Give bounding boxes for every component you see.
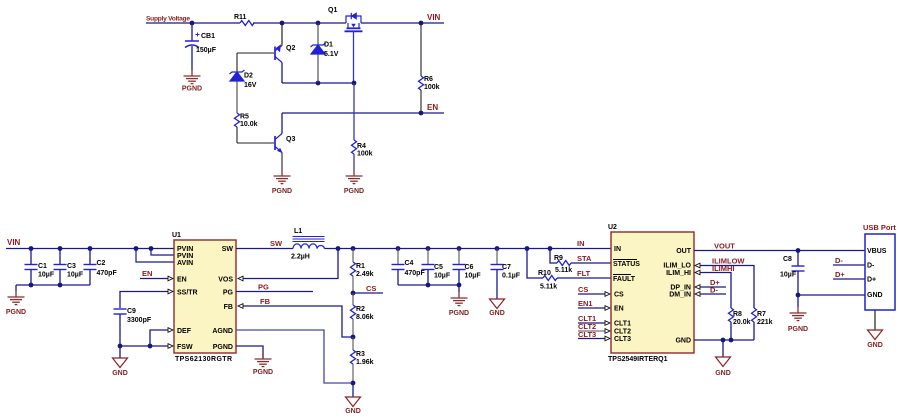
junction caps rail at C5: [426, 283, 431, 288]
svg-text:D2: D2: [244, 73, 253, 80]
svg-text:PGND: PGND: [213, 344, 233, 351]
svg-text:ILIMHI: ILIMHI: [712, 264, 735, 273]
node CLT3 label: [578, 330, 596, 339]
wire C8 bottom to USB GND: [798, 294, 865, 296]
wire FB to divider: [238, 304, 353, 337]
svg-text:GND: GND: [867, 292, 883, 299]
svg-text:FLT: FLT: [577, 269, 591, 278]
svg-text:EN: EN: [177, 277, 187, 284]
svg-text:DP_IN: DP_IN: [670, 285, 691, 292]
capacitor CB1 150uF: [185, 23, 217, 70]
svg-text:FB: FB: [224, 304, 233, 311]
svg-text:10µF: 10µF: [67, 272, 84, 279]
capacitor C8 10uF: [780, 251, 805, 296]
svg-text:C7: C7: [502, 264, 511, 271]
junction caps rail at C3: [58, 283, 63, 288]
pin U2 IN: [614, 246, 621, 253]
svg-text:U1: U1: [172, 232, 181, 239]
wire top rail R11 to Q1: [253, 22, 346, 24]
junction CS node: [351, 291, 356, 296]
node Supply Voltage label: [146, 16, 190, 23]
svg-text:GND: GND: [867, 342, 883, 349]
svg-text:CS: CS: [578, 285, 588, 294]
wire U1 PGND to ground: [236, 346, 263, 358]
pin U2 DM_IN: [669, 292, 691, 299]
wire top rail Q1 to VIN: [361, 22, 444, 24]
svg-text:8.06k: 8.06k: [356, 314, 374, 321]
svg-text:CLT1: CLT1: [614, 321, 631, 328]
connector USB Port: [863, 223, 896, 310]
svg-text:Q2: Q2: [286, 45, 295, 52]
transistor Q3 NPN: [275, 134, 295, 154]
pin U2 STATUS: [613, 260, 640, 269]
svg-text:R5: R5: [240, 114, 249, 121]
pin U1 PVIN 1: [177, 246, 193, 253]
node D+ label USB: [835, 270, 845, 279]
wire C9 node to GND: [119, 346, 121, 358]
wire OUT to VBUS: [694, 250, 865, 252]
wire VOS branch: [238, 249, 338, 281]
capacitor C2 470pF: [84, 249, 118, 286]
wire SS/TR to C9: [120, 289, 173, 308]
junction gate node: [352, 81, 357, 86]
node EN1 label: [578, 299, 593, 308]
wire CS stub: [353, 292, 383, 294]
svg-text:PG: PG: [258, 283, 269, 292]
wire ILIM_HI to R8: [695, 270, 731, 308]
junction SW rail R1: [351, 246, 356, 251]
junction SW rail VOS branch: [336, 246, 341, 251]
svg-text:CLT3: CLT3: [614, 336, 631, 343]
svg-text:PG: PG: [223, 290, 234, 297]
capacitor C9 3300pF: [114, 308, 152, 346]
wire top rail Supply Voltage to R11: [146, 22, 240, 24]
junction EN rail at R6: [419, 111, 424, 116]
svg-text:SW: SW: [222, 246, 234, 253]
node PG label: [258, 283, 269, 292]
svg-text:PGND: PGND: [449, 310, 469, 317]
pin U2 EN: [614, 306, 624, 313]
pin U2 CLT3: [614, 336, 631, 343]
junction VIN rail at C3: [58, 246, 63, 251]
op-amp U2 TPS2549IRTERQ1 body: [608, 224, 694, 363]
node ILIMHI label: [712, 264, 735, 273]
svg-text:GND: GND: [715, 370, 731, 377]
svg-text:PGND: PGND: [182, 86, 202, 93]
wire Q1 gate down to node: [353, 31, 355, 83]
svg-text:C5: C5: [434, 264, 443, 271]
wire C6 to PGND: [458, 285, 460, 292]
pin U1 PGND: [213, 344, 233, 351]
wire DEF branch: [150, 328, 173, 346]
junction VIN rail at PVIN2 branch: [149, 246, 154, 251]
svg-text:ILIM_LO: ILIM_LO: [663, 263, 691, 270]
pin U1 SS/TR: [177, 290, 198, 297]
svg-text:R7: R7: [757, 311, 766, 318]
wire branch to PVIN pin 2: [151, 249, 174, 256]
junction top rail at D1: [316, 21, 321, 26]
ground GND under C7: [489, 299, 505, 317]
svg-text:470pF: 470pF: [97, 270, 118, 277]
wire output caps ground rail: [398, 284, 459, 286]
wire SW rail L1 to U2 IN: [325, 248, 612, 250]
svg-text:D1: D1: [324, 42, 333, 49]
ground GND under USB: [867, 330, 883, 349]
svg-text:GND: GND: [489, 310, 505, 317]
resistor R10 5.11k: [527, 249, 611, 291]
junction FSW rail at C9: [118, 344, 123, 349]
pin USB VBUS: [867, 248, 887, 255]
pin USB D-: [867, 263, 875, 270]
wire Q2 collector to gate node rail: [282, 63, 354, 84]
svg-text:OUT: OUT: [676, 248, 692, 255]
svg-text:R1: R1: [356, 263, 365, 270]
junction D1 bottom: [316, 81, 321, 86]
wire ILIM_LO to R7: [695, 263, 754, 308]
svg-text:TPS62130RGTR: TPS62130RGTR: [175, 356, 232, 363]
svg-text:150µF: 150µF: [196, 47, 217, 54]
junction R3 bottom node: [351, 381, 356, 386]
pin U1 FB: [224, 304, 233, 311]
svg-text:D+: D+: [867, 277, 876, 284]
wire VIN rail to U1 PVIN: [6, 248, 174, 250]
wire branch to AVIN pin: [136, 249, 174, 263]
junction SW rail R9: [548, 246, 553, 251]
node IN label: [577, 239, 585, 248]
resistor R3 1.96k: [351, 337, 374, 383]
svg-text:CLT3: CLT3: [578, 330, 596, 339]
node D+ label U2: [710, 278, 720, 287]
svg-text:PVIN: PVIN: [177, 253, 193, 260]
junction SW rail C6: [457, 246, 462, 251]
pin U1 EN: [177, 277, 187, 284]
junction top rail at CB1: [190, 21, 195, 26]
pin U2 ILIM_LO: [663, 263, 691, 270]
capacitor C1 10uF: [25, 249, 55, 286]
resistor R5 10.0k: [235, 113, 258, 143]
wire USB to GND: [874, 310, 876, 330]
svg-text:VBUS: VBUS: [867, 248, 887, 255]
wire CS stub to U2: [578, 292, 610, 297]
diode D2 zener 16V: [230, 70, 257, 113]
resistor R2 8.06k: [351, 293, 374, 337]
node VIN: [427, 13, 441, 22]
svg-text:R3: R3: [356, 351, 365, 358]
node VIN bottom: [7, 238, 21, 247]
wire Q2 base: [237, 52, 274, 54]
svg-text:5.11k: 5.11k: [540, 284, 557, 291]
wire C8 to PGND: [797, 295, 799, 307]
svg-text:FAULT: FAULT: [613, 276, 636, 283]
resistor R7 221k: [752, 308, 773, 340]
junction C8 bottom: [796, 293, 801, 298]
wire U1 AGND to R3 bottom: [236, 330, 353, 383]
wire CLT2 stub to U2: [578, 329, 610, 334]
junction FB node: [351, 335, 356, 340]
ground PGND under U1: [253, 353, 273, 376]
svg-text:EN: EN: [142, 269, 152, 278]
svg-text:R6: R6: [424, 76, 433, 83]
wire CLT1 stub to U2: [578, 321, 610, 326]
wire Q3 emitter down: [281, 153, 283, 171]
svg-text:VOUT: VOUT: [714, 242, 735, 251]
svg-text:IN: IN: [614, 246, 621, 253]
diode D1 zener 5.1V: [311, 23, 339, 83]
svg-text:DM_IN: DM_IN: [669, 292, 691, 299]
node EN bottom: [142, 269, 152, 278]
svg-text:100k: 100k: [424, 84, 440, 91]
node D- label U2: [710, 286, 718, 295]
wire CLT3 stub to U2: [578, 336, 610, 341]
svg-text:R4: R4: [357, 143, 366, 150]
svg-text:STA: STA: [577, 254, 592, 263]
junction GND rail at R8: [729, 338, 734, 343]
wire D+ stub USB: [833, 278, 865, 280]
capacitor C7 0.1uF: [491, 249, 521, 300]
node EN top: [427, 103, 438, 112]
ground GND under C9: [112, 358, 128, 377]
junction SW rail C7: [495, 246, 500, 251]
resistor R4 100k: [352, 83, 373, 170]
svg-text:EN: EN: [427, 103, 438, 112]
svg-text:R10: R10: [538, 270, 551, 277]
transistor Q1 PMOS: [328, 7, 363, 31]
svg-text:TPS2549IRTERQ1: TPS2549IRTERQ1: [608, 356, 668, 363]
svg-text:PGND: PGND: [253, 369, 273, 376]
junction top rail at Q2 emitter: [280, 21, 285, 26]
svg-text:VOS: VOS: [218, 277, 233, 284]
node CS label U2: [578, 285, 588, 294]
svg-text:SW: SW: [270, 239, 283, 248]
ground GND under R3: [345, 397, 361, 415]
svg-text:0.1µF: 0.1µF: [502, 273, 521, 280]
junction VIN rail at AVIN branch: [134, 246, 139, 251]
svg-text:C2: C2: [97, 260, 106, 267]
svg-text:PGND: PGND: [788, 326, 808, 333]
svg-text:GND: GND: [345, 408, 361, 415]
op-amp U1 TPS62130RGTR body: [172, 232, 236, 363]
svg-text:5.11k: 5.11k: [555, 267, 572, 274]
svg-text:10µF: 10µF: [465, 273, 482, 280]
svg-text:C3: C3: [67, 263, 76, 270]
ground PGND under CB1: [182, 70, 202, 93]
junction SW rail R10: [525, 246, 530, 251]
svg-text:AGND: AGND: [212, 328, 233, 335]
svg-text:ILIM_HI: ILIM_HI: [666, 270, 691, 277]
svg-text:2.49k: 2.49k: [356, 271, 374, 278]
svg-text:GND: GND: [112, 370, 128, 377]
pin U2 FAULT: [613, 275, 636, 284]
wire DM_IN stub: [695, 292, 726, 297]
capacitor C3 10uF: [54, 249, 84, 286]
wire U2 GND rail: [694, 339, 754, 341]
ground PGND under C8: [788, 307, 808, 333]
junction VOUT at C8: [796, 248, 801, 253]
wire D- stub USB: [833, 264, 865, 266]
node CLT2 label: [578, 322, 596, 331]
svg-text:C1: C1: [38, 263, 47, 270]
svg-text:CB1: CB1: [201, 33, 215, 40]
svg-text:SS/TR: SS/TR: [177, 290, 198, 297]
junction FSW rail at DEF branch: [148, 344, 153, 349]
svg-text:U2: U2: [608, 224, 617, 231]
svg-text:EN1: EN1: [578, 299, 593, 308]
ground PGND under Q3: [272, 170, 292, 195]
junction top rail at R6: [419, 21, 424, 26]
svg-text:221k: 221k: [757, 319, 773, 326]
pin U1 FSW: [177, 344, 193, 351]
pin U2 DP_IN: [670, 285, 691, 292]
svg-text:GND: GND: [675, 338, 691, 345]
svg-text:PVIN: PVIN: [177, 246, 193, 253]
svg-text:VIN: VIN: [7, 238, 21, 247]
wire FSW rail: [120, 344, 173, 349]
svg-text:R11: R11: [234, 14, 247, 21]
resistor R9 5.11k: [550, 249, 611, 275]
wire SW from U1 to L1: [236, 248, 293, 250]
svg-text:VIN: VIN: [427, 13, 441, 22]
transistor Q2 PNP: [275, 23, 295, 63]
svg-text:D-: D-: [710, 286, 718, 295]
svg-text:3300pF: 3300pF: [127, 317, 152, 324]
resistor R1 2.49k: [351, 249, 374, 294]
svg-text:EN: EN: [614, 306, 624, 313]
ground GND under U2: [715, 357, 731, 377]
wire Q3 collector to EN rail: [282, 113, 444, 134]
pin U2 GND: [675, 338, 691, 345]
svg-text:C8: C8: [783, 256, 792, 263]
node CLT1 label: [578, 314, 596, 323]
svg-text:STATUS: STATUS: [613, 261, 640, 268]
svg-text:PGND: PGND: [6, 309, 26, 316]
capacitor C6 10uF: [453, 249, 482, 286]
capacitor C5 10uF: [422, 249, 451, 286]
svg-text:C4: C4: [405, 260, 414, 267]
ground PGND under R4: [344, 170, 364, 195]
svg-text:IN: IN: [577, 239, 585, 248]
svg-text:R9: R9: [554, 255, 563, 262]
pin U2 ILIM_HI: [666, 270, 691, 277]
pin U1 PVIN 2: [177, 253, 193, 260]
svg-text:Q3: Q3: [286, 136, 295, 143]
wire Q2 base branch down: [236, 53, 238, 72]
node CS label: [366, 284, 376, 293]
resistor R8 20.0k: [729, 308, 751, 340]
svg-text:FSW: FSW: [177, 344, 193, 351]
junction SW rail C5: [426, 246, 431, 251]
wire input caps ground rail: [16, 285, 90, 291]
pin USB D+: [867, 277, 876, 284]
svg-text:CS: CS: [366, 284, 376, 293]
svg-text:PGND: PGND: [344, 188, 364, 195]
svg-text:AVIN: AVIN: [177, 260, 193, 267]
inductor L1 2.2uH: [291, 228, 325, 261]
svg-text:5.1V: 5.1V: [324, 51, 339, 58]
svg-text:470pF: 470pF: [405, 270, 426, 277]
pin U2 CLT1: [614, 321, 631, 328]
svg-text:16V: 16V: [244, 82, 257, 89]
svg-text:10µF: 10µF: [38, 272, 55, 279]
pin U1 PG: [223, 290, 234, 297]
svg-text:DEF: DEF: [177, 328, 192, 335]
node ILIMLOW label: [712, 257, 745, 266]
svg-text:D-: D-: [867, 263, 875, 270]
wire EN to U1: [140, 276, 173, 281]
junction caps rail at C1: [29, 283, 34, 288]
node D- label USB: [835, 256, 843, 265]
junction caps rail at C6: [457, 283, 462, 288]
junction GND rail at drop: [721, 338, 726, 343]
svg-text:L1: L1: [294, 228, 302, 235]
pin U2 OUT: [676, 248, 692, 255]
junction SW rail C4: [396, 246, 401, 251]
wire R3 to GND: [352, 383, 354, 397]
pin U2 CS: [614, 292, 624, 299]
pin U2 CLT2: [614, 329, 631, 336]
pin U1 SW: [222, 246, 234, 253]
wire PG stub: [236, 291, 313, 293]
svg-text:20.0k: 20.0k: [733, 319, 751, 326]
node FLT label: [577, 269, 591, 278]
svg-text:FB: FB: [260, 297, 271, 306]
wire DP_IN stub: [695, 285, 726, 290]
wire R5 to Q3 base: [237, 142, 274, 144]
svg-text:10µF: 10µF: [434, 273, 451, 280]
resistor R6 100k: [419, 23, 440, 113]
node FB label: [260, 297, 271, 306]
node STA label: [577, 254, 592, 263]
ground PGND under C6: [449, 292, 469, 317]
svg-text:R2: R2: [356, 306, 365, 313]
node SW label: [270, 239, 283, 248]
svg-text:2.2µH: 2.2µH: [291, 254, 310, 261]
svg-text:Q1: Q1: [328, 7, 337, 14]
pin U1 AGND: [212, 328, 233, 335]
wire GND drop: [722, 340, 724, 357]
svg-text:100k: 100k: [357, 151, 373, 158]
pin U1 VOS: [218, 277, 233, 284]
ground PGND input caps: [6, 291, 26, 316]
svg-text:Supply Voltage: Supply Voltage: [146, 16, 190, 23]
svg-text:CS: CS: [614, 292, 624, 299]
svg-text:D+: D+: [835, 270, 845, 279]
svg-text:10µF: 10µF: [780, 272, 797, 279]
resistor R11: [234, 14, 254, 26]
svg-text:USB Port: USB Port: [863, 223, 896, 232]
svg-text:D-: D-: [835, 256, 843, 265]
svg-text:10.0k: 10.0k: [240, 121, 258, 128]
svg-text:PGND: PGND: [272, 188, 292, 195]
pin USB GND: [867, 292, 883, 299]
node VOUT label: [714, 242, 735, 251]
svg-text:C9: C9: [127, 308, 136, 315]
capacitor C4 470pF: [392, 249, 426, 286]
junction VIN rail at C1: [29, 246, 34, 251]
svg-text:R8: R8: [733, 311, 742, 318]
svg-text:CLT2: CLT2: [614, 329, 631, 336]
svg-text:1.96k: 1.96k: [356, 359, 374, 366]
wire EN1 stub to U2: [578, 306, 610, 311]
pin U1 AVIN: [177, 260, 193, 267]
junction VIN rail at C2: [88, 246, 93, 251]
svg-text:C6: C6: [465, 264, 474, 271]
pin U1 DEF: [177, 328, 192, 335]
